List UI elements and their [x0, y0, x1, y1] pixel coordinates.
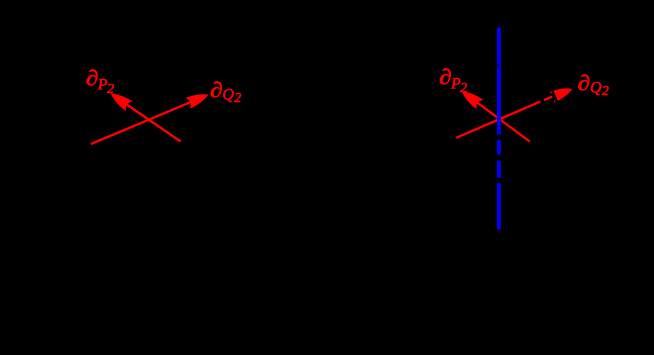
- svg-text:2: 2: [460, 81, 467, 96]
- svg-text:∂: ∂: [210, 79, 223, 103]
- svg-text:∂: ∂: [86, 67, 99, 91]
- svg-text:Q: Q: [222, 87, 234, 104]
- svg-text:∂: ∂: [578, 72, 591, 96]
- svg-text:∂: ∂: [439, 66, 452, 90]
- svg-text:2: 2: [107, 82, 114, 97]
- svg-text:2: 2: [602, 84, 609, 99]
- svg-text:2: 2: [234, 91, 241, 106]
- svg-text:Q: Q: [590, 80, 602, 97]
